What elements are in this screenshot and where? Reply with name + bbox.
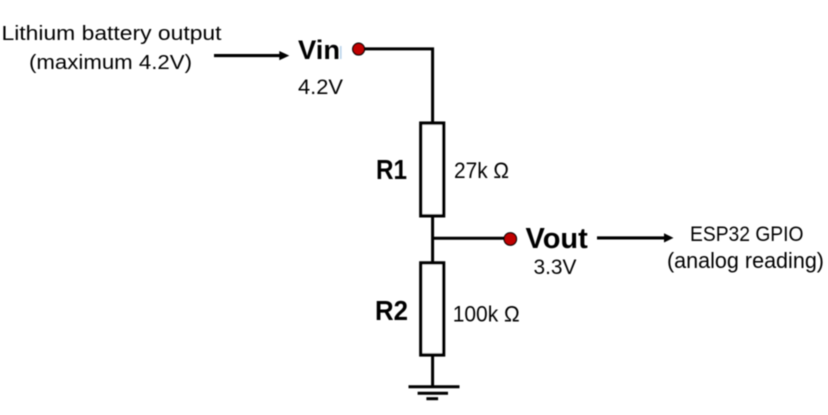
wire from R1 bottom to R2 top (431, 216, 434, 262)
wire junction to Vout dot (433, 237, 504, 240)
svg-text:R2: R2 (375, 295, 408, 326)
svg-text:ESP32 GPIO: ESP32 GPIO (690, 223, 804, 246)
svg-text:4.2V: 4.2V (298, 76, 343, 99)
svg-text:R1: R1 (376, 154, 407, 185)
resistor R2 (421, 263, 444, 355)
svg-text:100k Ω: 100k Ω (453, 302, 520, 327)
arrow from battery label to Vin (214, 51, 289, 60)
wire from Vin node to R1 top (365, 49, 433, 123)
svg-text:Lithium battery output: Lithium battery output (2, 23, 222, 45)
svg-text:3.3V: 3.3V (534, 256, 577, 279)
svg-text:(maximum 4.2V): (maximum 4.2V) (29, 52, 192, 74)
arrow from Vout to ESP32 (597, 233, 674, 242)
svg-text:Vin: Vin (298, 35, 340, 65)
resistor R1 (421, 123, 444, 216)
svg-text:Vout: Vout (526, 223, 589, 255)
node Vout junction dot (504, 233, 516, 245)
ground symbol (409, 387, 460, 399)
svg-text:(analog reading): (analog reading) (667, 248, 824, 273)
wire from R2 bottom to ground (431, 355, 434, 387)
text cursor artifact right of Vin (340, 46, 342, 59)
node Vin junction dot (353, 43, 365, 55)
svg-text:27k Ω: 27k Ω (454, 158, 509, 183)
